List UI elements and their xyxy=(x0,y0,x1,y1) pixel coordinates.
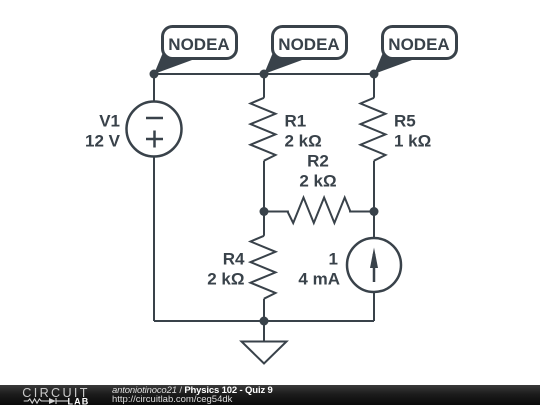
svg-text:12 V: 12 V xyxy=(85,132,121,151)
svg-text:NODEA: NODEA xyxy=(168,35,229,54)
svg-text:R2: R2 xyxy=(307,152,329,171)
svg-text:2 kΩ: 2 kΩ xyxy=(285,132,322,151)
svg-text:2 kΩ: 2 kΩ xyxy=(299,172,336,191)
svg-text:R1: R1 xyxy=(285,112,307,131)
svg-text:1 kΩ: 1 kΩ xyxy=(394,132,431,151)
svg-text:2 kΩ: 2 kΩ xyxy=(207,270,244,289)
svg-text:R4: R4 xyxy=(223,250,245,269)
svg-text:R5: R5 xyxy=(394,112,416,131)
svg-text:4 mA: 4 mA xyxy=(298,270,340,289)
svg-text:LAB: LAB xyxy=(68,396,90,406)
svg-text:V1: V1 xyxy=(99,112,120,131)
svg-text:NODEA: NODEA xyxy=(278,35,339,54)
svg-text:NODEA: NODEA xyxy=(388,35,449,54)
svg-text:1: 1 xyxy=(329,250,338,269)
